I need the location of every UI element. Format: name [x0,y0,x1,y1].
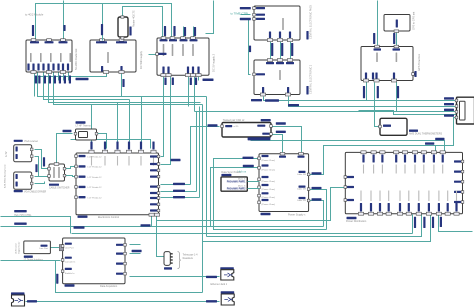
wire box C top pin3 stub up [183,27,185,37]
wire label right of DA pin2 [132,250,142,252]
block G GPS time receiver [361,47,413,81]
wire DA right pin2 stub [130,253,141,255]
svg-text:to 4G2 Module: to 4G2 Module [25,13,44,17]
pin stub below box H [394,30,399,33]
svg-text:LT HF Thermo: LT HF Thermo [76,124,92,127]
wire label AMSLINK on P2 [425,142,434,144]
svg-text:Ethernet Jack 1: Ethernet Jack 1 [211,283,228,286]
svg-text:LT Digital Interface: LT Digital Interface [24,259,44,262]
wire box C bottom pin5 drop to trunk T3 [194,77,196,112]
wire bus3 y233.3 [72,233,413,235]
svg-text:LCT Frieda 12: LCT Frieda 12 [88,166,103,169]
svg-text:Twisted pair CAN x2: Twisted pair CAN x2 [223,119,245,122]
wire bus5 y241.9 [203,215,431,242]
svg-text:Router 4G/LTE: Router 4G/LTE [133,10,136,27]
wire jog near box J to right [359,111,474,115]
wire down to block N top pin3 [117,103,119,149]
wire labels right of block N [171,159,181,161]
wire connector I pin4 to power supply right pin1 [309,118,457,175]
svg-text:(Power Chan): (Power Chan) [262,188,276,191]
wire power supply right pin3 down to bus1 [309,201,324,227]
svg-text:Cable 5W: Cable 5W [297,174,306,176]
wire y220 from v156 to PD left pin2 [157,188,346,221]
wire from left edge to DA left pin2 [1,260,61,262]
wire PD bottom pin drop exits right [439,215,473,232]
svg-text:VGA CABLE DRIVER: VGA CABLE DRIVER [24,190,47,193]
svg-text:af 25: af 25 [234,126,240,128]
wire box G bottom pin1 down to trunk T1 [366,82,368,101]
navy label at left end of P1 [248,137,271,140]
block PD power distribution (large) [345,152,462,213]
wire box C bottom pin4 drop to trunk T2 [188,77,190,107]
box L VGA cable driver [14,172,32,189]
wire long vertical into box G top pin1 [377,1,379,46]
svg-text:Hub 7270 CTRL: Hub 7270 CTRL [14,214,32,217]
wire bus1 y226.3 [152,215,324,227]
wire box G pin2 upper part [374,83,376,109]
label above block A pin1 [32,25,34,36]
wire power supply left pin2 long route to bus1 [211,168,260,227]
box P line port adapter [24,241,51,254]
wire power supply left pin1 long route to bus2 [214,159,327,230]
svg-text:Digital Conv: Digital Conv [18,241,21,254]
wire band b4 y104.5 [54,73,203,105]
svg-text:Stabiliz In: Stabiliz In [65,272,75,275]
svg-text:GPS Time Rec: GPS Time Rec [417,53,421,71]
block Q top pins [280,152,285,155]
svg-text:Power Supply x: Power Supply x [288,214,306,217]
wire into box C left pin [149,54,157,56]
svg-text:DC WiFi supply: DC WiFi supply [139,50,143,69]
labels on PD bottom drop wires [414,217,416,228]
wire trunk T3 CANBUS-C to connector I pin3 [195,111,457,113]
wire box T right pin2 to power supply top [272,135,283,154]
wire P1 long line to PD top pin9 [251,141,445,151]
wire box E to box F pin2 [280,42,282,59]
svg-text:Line Port: Line Port [65,247,74,250]
block DA data acquisition [63,238,125,284]
svg-text:(Power Chan): (Power Chan) [262,196,276,199]
svg-text:Line Port: Line Port [39,247,48,250]
wire trunk T2 CANBUS-B to connector I pin2 [289,97,457,107]
wire box C bottom pin stub [198,77,200,81]
box H GPS antenna [384,15,410,32]
svg-text:Cable 5W: Cable 5W [297,200,306,202]
svg-text:LCT Frieda 12: LCT Frieda 12 [88,155,103,158]
svg-text:LCT Frieda 12: LCT Frieda 12 [88,176,103,179]
svg-text:PIXHAWK PWR1: PIXHAWK PWR1 [227,180,246,183]
wire labels left of connector I [444,97,454,99]
wire labels right of block Q [312,172,322,174]
wire y139 into block N top pin6 [71,140,151,149]
wire labels left of block E [240,7,251,9]
box M arpege cable switch [49,164,65,181]
wire box C top pin4 stub up [193,27,195,37]
block N bottom labels [78,216,88,218]
block E central electronics pack [254,6,300,40]
wire into box E left pin1 [241,8,251,10]
connector J-COMM telescope readouts [164,252,170,266]
navy vertical label at block E bottom right [306,31,308,40]
labels on wires below block A [35,76,37,84]
wire DA right pin4 to ethernet jack1 [130,276,220,278]
svg-text:(Power Chan): (Power Chan) [262,168,276,171]
wire trunk T1 CANBUS-A to connector I pin1 [264,97,457,101]
svg-text:AMS DUAL THERMOMETERS: AMS DUAL THERMOMETERS [409,133,442,136]
wire net W-HOTSPOT box A top pin1 to box C top pin2 [36,4,172,39]
svg-text:(Power Chan): (Power Chan) [262,180,276,183]
block G right pin [412,73,415,76]
box D router (vertical) [118,17,128,37]
wire block N right pin to v190 [161,184,191,186]
wire box B bottom pin2 drop [121,73,123,97]
svg-text:CENTRAL ELECTRONIC 2: CENTRAL ELECTRONIC 2 [310,64,313,94]
svg-text:CENTRAL ELECTRONIC PACK: CENTRAL ELECTRONIC PACK [310,4,313,39]
box J AMS dual thermometer [380,118,407,135]
wire DA right pin1 stub [130,244,141,246]
wire bus3 right vertical to PD bottom pin [412,215,414,234]
svg-text:CABLE SWITCHER: CABLE SWITCHER [49,187,70,190]
connector ethernet jack 1 [220,267,234,269]
svg-text:A-/B-White Analog Conv: A-/B-White Analog Conv [4,164,7,188]
wire label ADAPTER on P1 [435,138,444,140]
bracket right of J-COMM [178,252,181,269]
connector speaker bottom left [11,292,25,294]
svg-text:LCT Frieda 12: LCT Frieda 12 [88,196,103,199]
wire v199 up to trunk T2 [199,107,201,198]
vertical label AMSLINK left of DA bottom [56,274,58,284]
wire down to block N top pin1 [91,105,93,149]
svg-text:(Power Chan): (Power Chan) [262,203,276,206]
wire GPS/DRIVE 2 from left edge joins bus1 [1,226,152,228]
wire band b3 y102 [49,73,201,103]
wire box A pin drop x34 [34,73,36,97]
box K VGA cable receiver [14,145,32,162]
labels above block C top pins [164,26,166,36]
DA bottom labels [65,284,75,286]
block Q bottom labels [261,213,271,215]
wire down to block N top pin5 [141,97,143,149]
wire label ANT/EXTRA jack2 [206,300,217,302]
label on wire above box G pin1 [373,33,375,44]
wire box K pin to switch M left pin1 [35,150,49,169]
connector ethernet jack 2 [221,291,235,293]
wire down to block N top pin4 [129,100,131,149]
label speaker near amplifier wire [63,130,72,132]
wire v156 down to J-COMM connector [157,215,164,257]
block F left pin [253,73,256,76]
wire branch down to PD top pin8 [435,146,437,151]
wire box E to box F pin3 [290,42,292,59]
box R pixhawk power inner box [221,177,247,191]
wire box C bottom pin2 to block N right pin2 [161,77,171,165]
label on wire E pin3 to F [249,46,251,53]
label CANBUS-DN above band [76,78,89,80]
wire box B top pin1 up to W1 line [102,4,104,41]
wire label AMSLINK mid bottom [141,224,151,226]
wire bus4 y236.4 [207,215,422,237]
block C 5V supply [157,38,209,75]
labels right of box J [409,130,418,132]
wire to 4G LTE module (exits top) [63,1,65,39]
wire box E to box F pin1 [270,42,272,59]
wire box G bottom pin3 drop to trunk T3 [396,82,398,112]
wire into box E left pin2 [241,14,251,16]
wire box H down to box G top pin2 [396,32,398,46]
wire speaker connector to ethernet jack2 [26,301,220,303]
wire long vertical v202 [202,105,204,242]
wire switch M right pin2 to block N left pin3 [65,176,77,177]
wire box L pin1 to switch M left pin2 [35,176,49,178]
wire labels right of box T [276,122,286,124]
wire box D router to box C top pin1 [123,7,163,37]
box T twisted pair module [222,123,271,138]
wire band b2 y99.5 [44,73,130,100]
svg-text:Readouts: Readouts [183,257,194,260]
wire label ANT/EXTRA jack1 [206,276,217,278]
wire power supply right pin2 down to bus2 [309,190,327,230]
wire v196 up to trunk T3 [196,112,198,192]
wire label AMSLINK speaker [27,300,37,302]
block PD bottom labels [347,217,357,219]
labels on wires K to M [35,164,37,172]
svg-text:LCT Frieda 12: LCT Frieda 12 [88,186,103,189]
wire box A bottom pin stub3 [68,73,70,81]
wire switch M top to amplifier left pin [57,134,73,163]
wire band1 left vertical down to bus4 [206,97,208,237]
wire box E pin3 down to box F left pin [249,19,251,75]
connector I right edge multi-pin [457,97,474,124]
block N electronics control (large) [76,153,159,215]
wire box R pin2 to Q pin4 [248,188,260,190]
wire box B bottom pin1 left run y76.5 [35,73,107,77]
label below box L [14,190,23,192]
label above amplifier [76,121,86,123]
block F central electronics 2 [254,60,300,95]
svg-text:Data Sync Power: Data Sync Power [221,171,240,174]
wire amplifier out to block N top pin2 [97,134,107,149]
label below data sync header [221,174,231,176]
wire label AMSLINK below N [74,226,85,228]
svg-text:A-TV: A-TV [5,151,8,157]
labels right of box D [129,27,131,36]
labels on wires below block G [363,86,365,98]
wire GPS/DRIVE 1 from left edge [1,217,71,234]
svg-text:DC 5V supply 2: DC 5V supply 2 [212,53,216,72]
svg-text:to TIME CTRL: to TIME CTRL [231,12,250,16]
block Q power supply [259,154,309,212]
label on wire between box H and box G [393,33,395,44]
wire box A bottom pin stub2 [63,73,65,81]
block N bottom pins [149,213,154,216]
wire box L pin2 jog [35,182,45,184]
block A radio modem [26,40,72,72]
wire band b1 y96.5 [38,73,207,97]
svg-text:PIXHAWK PWR2: PIXHAWK PWR2 [227,187,246,190]
box M2 amplifier [76,129,97,140]
svg-text:Power Distribution: Power Distribution [346,220,367,223]
svg-text:GPS to GPS ant: GPS to GPS ant [413,11,416,30]
wire box A bottom pin stub1 [58,73,60,81]
labels on wires below block C [164,78,166,86]
wire line-port box P to DA left pin1 [51,247,61,249]
wire box C bottom pin1 to block N right pin1 [161,77,164,157]
labels on wires between E and F [271,43,273,56]
svg-text:Console In: Console In [65,262,76,264]
wire labels below block F [251,99,262,101]
block C left pin [156,53,159,56]
label on wire above box B pin1 [101,24,103,35]
wire switch M right pin1 to block N left pin2 [65,167,77,169]
label AMSLINK right of box C drop [202,78,204,80]
wire box T right pin1 to power supply top [272,127,302,154]
GPS/DRIVE wire labels at left edge [14,210,27,212]
wire labels left of block Q [243,157,254,159]
wire label left of box T [208,124,218,126]
svg-text:VGA receiver: VGA receiver [24,140,38,143]
label below block C [203,79,214,82]
svg-text:Electronics Control: Electronics Control [98,216,119,219]
svg-text:A-/B serial: A-/B serial [15,243,18,254]
wire into box E left pin3 [249,18,251,20]
wire block N right pin5 right [161,191,197,193]
block B mini computer [90,40,136,72]
label on wire below block B pin2 [122,79,124,87]
wire box K pin2 jog to switch M [35,157,49,177]
svg-text:Data Acquisition: Data Acquisition [100,285,118,288]
wire from top edge near box C top right [206,1,214,34]
label above box K [14,140,23,142]
wire box R pin1 to Q pin3 [248,181,260,183]
label below box M [49,184,59,186]
svg-text:Cable 5W: Cable 5W [297,189,306,191]
labels below box P [24,256,33,258]
svg-text:(Power Chan): (Power Chan) [262,159,276,162]
label below J-COMM [164,267,172,269]
wire v202 lower part [202,242,204,293]
wire box G pin2 down into box J left pin [375,109,379,127]
svg-text:5G WiFi Radio link: 5G WiFi Radio link [74,48,78,70]
wire v55 down and right y292 [56,261,203,293]
wire v190 up to twisted-pair box T left pin [191,127,220,185]
wire block N right pin6 right [161,197,200,199]
